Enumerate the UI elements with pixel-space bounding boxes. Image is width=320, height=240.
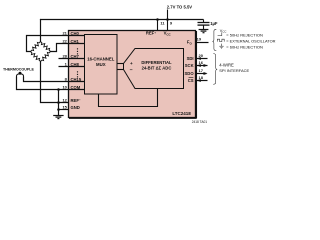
brace SPI group — [213, 54, 217, 85]
svg-text:CS: CS — [188, 78, 194, 83]
thermocouple TC1 — [17, 72, 24, 78]
svg-text:19: 19 — [197, 36, 202, 41]
svg-text:2.7V TO 5.5V: 2.7V TO 5.5V — [167, 4, 193, 9]
svg-text:18: 18 — [198, 75, 203, 80]
wire thermocouple minus to COM pin 10 — [17, 77, 85, 89]
wire VCC pin 9 — [167, 20, 169, 32]
svg-text:= EXTERNAL OSCILLATOR: = EXTERNAL OSCILLATOR — [226, 38, 275, 43]
node junction COM/ground — [57, 88, 60, 91]
svg-text:17: 17 — [198, 68, 203, 73]
wire MUX to ADC + input — [117, 63, 124, 65]
svg-text:10: 10 — [62, 84, 67, 89]
symbol tied to VCC — [218, 32, 222, 35]
wire supply rail 2.7V-5.5V — [40, 19, 204, 21]
ADC block DIFFERENTIAL 24-BIT delta-sigma ADC — [124, 49, 184, 89]
mux block 16-CHANNEL MUX — [85, 35, 118, 95]
ground (main) — [53, 116, 63, 119]
svg-text:= 50Hz REJECTION: = 50Hz REJECTION — [226, 32, 263, 37]
svg-text:SDI: SDI — [187, 56, 194, 61]
wire ground bus vertical — [58, 90, 60, 116]
wire GND pin 15 — [59, 109, 69, 111]
svg-text:SDO: SDO — [185, 71, 195, 76]
pin label CS with overline — [188, 78, 194, 83]
svg-text:MUX: MUX — [96, 62, 106, 67]
symbol ground option — [219, 44, 223, 49]
wire thermocouple plus to CH15 pin 8 — [24, 77, 85, 81]
brace FO options — [212, 29, 216, 50]
svg-text:28: 28 — [62, 53, 67, 58]
svg-text:1µF: 1µF — [210, 21, 218, 26]
svg-text:20: 20 — [198, 53, 203, 58]
node junction REF-/ground — [57, 101, 60, 104]
resistor bridge R3 (bottom-left arm) — [31, 52, 41, 62]
wire bridge bottom to REF- pin 12 — [41, 62, 69, 103]
node junction GND/ground — [57, 108, 60, 111]
svg-text:GND: GND — [71, 105, 80, 110]
svg-text:THERMOCOUPLE: THERMOCOUPLE — [3, 68, 35, 72]
IC U1 LTC2418 body — [69, 31, 197, 119]
svg-text:CH15: CH15 — [71, 77, 82, 82]
resistor bridge R2 (top-right arm) — [41, 42, 51, 52]
svg-text:21: 21 — [62, 30, 67, 35]
wire REF+ pin 11 — [157, 20, 159, 32]
capacitor C1 — [198, 20, 210, 30]
wire CH8 stub pin 1 — [59, 66, 85, 68]
wire ADC to MUX channel-select feedback — [99, 89, 158, 107]
svg-text:= 60Hz REJECTION: = 60Hz REJECTION — [226, 44, 263, 49]
svg-text:16-CHANNEL: 16-CHANNEL — [87, 57, 115, 62]
wire CS pin 18 input — [197, 79, 208, 82]
node junction rail/VCC — [166, 18, 169, 21]
svg-text:16: 16 — [198, 60, 203, 65]
svg-text:LTC2418: LTC2418 — [172, 111, 191, 116]
resistor bridge R4 (bottom-right arm) — [41, 52, 51, 62]
svg-text:CH1: CH1 — [71, 39, 80, 44]
svg-text:CH0: CH0 — [71, 31, 80, 36]
svg-text:12: 12 — [62, 97, 67, 102]
svg-text:22: 22 — [62, 38, 67, 43]
wire bridge left corner to CH0 pin 21 — [27, 36, 85, 52]
svg-text:−: − — [129, 68, 132, 74]
svg-text:24-BIT ΔΣ ADC: 24-BIT ΔΣ ADC — [142, 65, 172, 70]
svg-text:SCK: SCK — [185, 63, 194, 68]
wire bridge right corner to CH1 pin 22 — [51, 44, 85, 52]
wire bridge top to supply rail — [40, 19, 42, 42]
ellipsis channels CH2-CH6 — [77, 48, 78, 54]
wire FO pin 19 — [196, 42, 208, 44]
ellipsis channels CH9-CH14 — [77, 71, 78, 77]
svg-text:4-WIRE: 4-WIRE — [219, 63, 234, 68]
svg-text:SPI INTERFACE: SPI INTERFACE — [219, 68, 249, 73]
node junction rail/REF+ — [156, 18, 159, 21]
symbol external clock — [217, 39, 224, 41]
svg-text:+: + — [130, 61, 133, 66]
resistor bridge R1 (top-left arm) — [31, 42, 41, 52]
ground (capacitor) — [199, 30, 209, 33]
svg-text:2418 TA01: 2418 TA01 — [192, 120, 208, 124]
wire CH7 stub pin 28 — [59, 58, 85, 60]
wire SDI pin 20 input — [197, 57, 208, 60]
svg-text:CH8: CH8 — [71, 62, 80, 67]
wire MUX to ADC - input — [117, 69, 124, 71]
wire SCK pin 16 bidirectional — [197, 64, 208, 67]
wire SDO pin 17 output — [196, 72, 207, 75]
wire supply label tick — [167, 10, 169, 20]
label 4-WIRE SPI INTERFACE — [219, 63, 249, 74]
svg-text:CH7: CH7 — [71, 54, 80, 59]
svg-text:COM: COM — [71, 85, 81, 90]
svg-text:15: 15 — [62, 104, 67, 109]
